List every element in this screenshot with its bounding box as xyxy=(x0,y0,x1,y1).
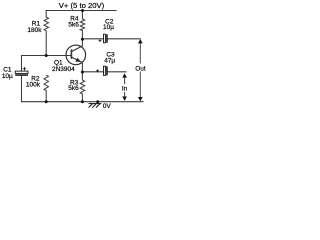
svg-text:2N3904: 2N3904 xyxy=(52,66,75,73)
svg-text:Out: Out xyxy=(135,65,146,72)
svg-text:100k: 100k xyxy=(26,82,41,89)
svg-text:180k: 180k xyxy=(27,27,42,34)
svg-text:10µ: 10µ xyxy=(2,73,13,80)
svg-text:10µ: 10µ xyxy=(103,24,114,31)
svg-text:5k6: 5k6 xyxy=(68,22,79,29)
svg-text:V+ (5 to 20V): V+ (5 to 20V) xyxy=(59,1,105,10)
svg-text:47µ: 47µ xyxy=(104,57,115,64)
svg-text:In: In xyxy=(122,86,128,93)
svg-text:0V: 0V xyxy=(103,103,112,110)
svg-text:5k6: 5k6 xyxy=(68,85,79,92)
